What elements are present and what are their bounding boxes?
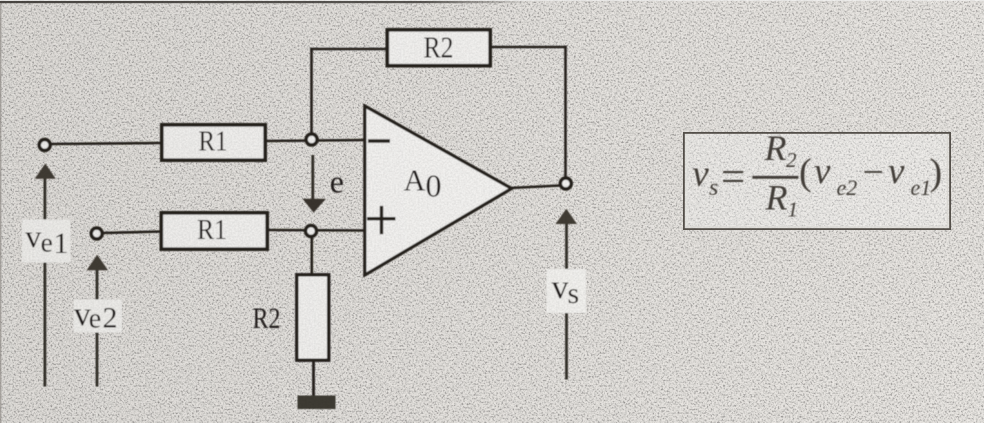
label ve2 (74, 296, 123, 335)
node B (non-inverting input node) (306, 226, 317, 237)
resistor R2 (feedback, top) (387, 30, 490, 66)
source arrow ve2 (87, 255, 108, 387)
scan border left (faint) (0, 3, 1, 423)
wire feedback top right (491, 46, 567, 49)
resistor R1 (bottom) (161, 213, 267, 249)
node A (inverting input node) (306, 134, 317, 145)
label vs (547, 269, 587, 313)
label ve1 (22, 218, 71, 262)
wire R1 to op-amp inverting input (266, 140, 366, 141)
wire feedback top left (310, 48, 388, 51)
formula vs = R2/R1 (ve2 - ve1) (692, 128, 942, 222)
wire feedback vertical left (310, 48, 313, 136)
arrow e (differential voltage) (303, 155, 326, 213)
wire R1 to op-amp non-inverting input (267, 229, 366, 232)
output arrow vs (556, 209, 578, 380)
resistor R2 (vertical, to ground) (297, 275, 329, 360)
input terminal 1 (39, 140, 50, 151)
scan border top (0, 0, 984, 1)
input terminal 2 (91, 228, 102, 239)
minus sign (368, 139, 390, 142)
source arrow ve1 (35, 164, 56, 387)
op-amp A0 (365, 106, 512, 275)
wire input1 to R1 (50, 143, 162, 144)
wire R2 to ground (312, 360, 315, 397)
wire input2 to R1 (102, 232, 162, 234)
plus sign (367, 217, 395, 220)
ground (298, 396, 336, 410)
wire op-amp output (510, 186, 560, 189)
output terminal (560, 178, 571, 189)
wire output vertical (564, 46, 567, 179)
wire node to R2 vertical (310, 236, 313, 275)
formula box (684, 133, 950, 229)
resistor R1 (top) (162, 125, 265, 160)
